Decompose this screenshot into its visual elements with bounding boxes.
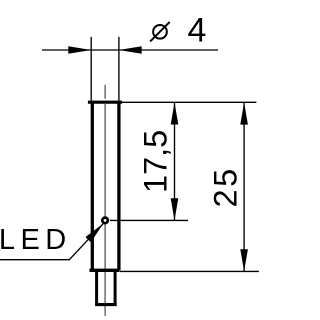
arrow left of diameter dim bbox=[68, 46, 91, 54]
svg-text:4: 4 bbox=[188, 12, 207, 50]
arrow 25 top bbox=[240, 102, 248, 124]
arrow right of diameter dim bbox=[119, 46, 142, 54]
wire: 17,5 dimension line bbox=[174, 102, 176, 220]
svg-text:17,5: 17,5 bbox=[138, 130, 174, 193]
connector left wall bbox=[95, 272, 98, 305]
wire: extension line at body top towards dims bbox=[122, 101, 256, 103]
wire: 25 dimension line bbox=[243, 102, 245, 271]
wire: LED leader line bbox=[0, 224, 103, 260]
LED indicator circle bbox=[102, 218, 108, 224]
sensor body bottom face bbox=[90, 269, 120, 272]
sensor body right wall bbox=[117, 101, 120, 271]
sensor body left wall bbox=[91, 101, 94, 271]
wire: top extension line right bbox=[118, 37, 120, 101]
arrow 25 bottom bbox=[240, 249, 248, 271]
wire: top extension line left bbox=[90, 37, 92, 101]
arrow 17,5 top bbox=[171, 102, 179, 124]
arrow 17,5 bottom bbox=[171, 198, 179, 220]
wire: extension line at LED level bbox=[110, 219, 188, 221]
svg-text:LED: LED bbox=[0, 224, 72, 256]
svg-text:25: 25 bbox=[208, 166, 244, 207]
label ø bbox=[150, 22, 170, 42]
center line bbox=[104, 85, 106, 316]
connector right wall bbox=[114, 272, 117, 305]
sensor body top face bbox=[88, 101, 122, 104]
wire: extension line at body bottom bbox=[120, 270, 259, 272]
wire: top dimension line bbox=[42, 49, 218, 51]
arrow LED leader bbox=[85, 224, 103, 243]
connector bottom face bbox=[95, 303, 117, 306]
